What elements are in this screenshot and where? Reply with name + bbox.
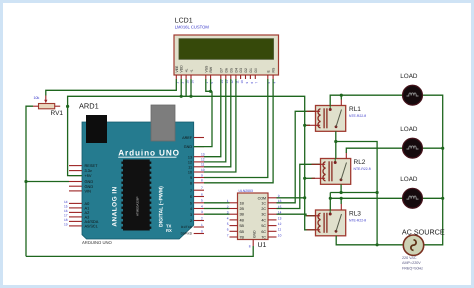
wire RL3 NO stub: [340, 198, 342, 204]
wire +5V to RL2 coil: [305, 177, 315, 179]
svg-text:4: 4: [201, 204, 203, 208]
svg-text:D1: D1: [249, 68, 253, 72]
junction AC chain: [376, 243, 379, 246]
Arduino USB connector: [151, 105, 175, 141]
LCD pin numbers: [176, 80, 277, 84]
svg-text:6C: 6C: [261, 230, 266, 234]
svg-text:14: 14: [64, 200, 68, 204]
wire 1C to RL1 coil: [277, 111, 316, 203]
svg-text:ULN2003: ULN2003: [239, 189, 253, 193]
svg-text:10: 10: [240, 80, 244, 84]
wire pin3 to 3B: [204, 213, 230, 215]
svg-text:RX: RX: [166, 228, 172, 233]
svg-text:7: 7: [227, 233, 229, 237]
svg-text:D5: D5: [229, 68, 233, 72]
wire VSS down: [206, 79, 212, 91]
svg-text:10: 10: [188, 171, 192, 175]
junction GND left: [24, 180, 27, 183]
svg-text:AMP=220V: AMP=220V: [402, 261, 421, 265]
junction VDD: [180, 95, 183, 98]
svg-text:D7: D7: [219, 68, 223, 72]
svg-text:7: 7: [190, 189, 192, 193]
wire LOAD3 right: [422, 197, 442, 199]
svg-text:AREF: AREF: [182, 136, 193, 140]
svg-text:16: 16: [64, 209, 68, 213]
junction chain mid: [376, 191, 379, 194]
svg-text:17: 17: [64, 213, 68, 217]
svg-text:ARD1: ARD1: [79, 102, 99, 111]
svg-text:6: 6: [201, 192, 203, 196]
svg-text:6: 6: [190, 195, 192, 199]
svg-text:2: 2: [201, 216, 203, 220]
svg-text:9: 9: [201, 173, 203, 177]
svg-text:8: 8: [249, 245, 251, 249]
svg-text:FREQ=50Hz: FREQ=50Hz: [402, 266, 423, 270]
svg-text:4C: 4C: [261, 218, 266, 222]
label Arduino UNO on board: [118, 149, 180, 158]
junction RV1/+5V: [66, 105, 69, 108]
svg-text:7: 7: [201, 186, 203, 190]
junction -L: [189, 95, 192, 98]
svg-text:RS: RS: [272, 67, 276, 72]
svg-text:13: 13: [188, 155, 192, 159]
wire +L drop: [185, 79, 187, 96]
wire RL3 common to AC: [336, 236, 403, 245]
wire RL1 NO stub: [340, 95, 342, 99]
svg-text:5: 5: [201, 199, 203, 203]
junction chain RL2 top: [334, 140, 337, 143]
svg-text:D3: D3: [239, 68, 243, 72]
svg-text:12: 12: [188, 161, 192, 165]
wire LOAD1 to RL1 contacts: [330, 95, 403, 105]
svg-text:5B: 5B: [240, 224, 245, 228]
svg-text:8: 8: [190, 181, 192, 185]
wire GND riser to Arduino: [194, 91, 212, 146]
wire +5V to RL1 coil: [305, 124, 310, 126]
junction RL1 coil +5V: [303, 124, 306, 127]
svg-text:ARDUINO UNO: ARDUINO UNO: [82, 240, 113, 245]
wire AC right to neutral: [422, 95, 442, 245]
svg-text:RL2: RL2: [354, 159, 366, 166]
svg-text:COM: COM: [258, 196, 266, 200]
wire 3C to RL3 coil: [277, 214, 316, 216]
load lamp LOAD1: [403, 85, 423, 105]
svg-text:6: 6: [227, 228, 229, 232]
svg-text:10k: 10k: [34, 96, 40, 100]
svg-text:VIN: VIN: [85, 189, 92, 194]
svg-text:8: 8: [201, 179, 203, 183]
LCD pin stubs: [176, 75, 273, 79]
wire LOAD3 line: [330, 197, 402, 199]
svg-text:15: 15: [64, 204, 68, 208]
svg-text:VDD: VDD: [180, 65, 184, 73]
svg-text:12: 12: [201, 158, 205, 162]
wire RL2 common rail: [330, 192, 377, 194]
wire VEE to RV1 wiper: [46, 79, 177, 96]
RV1 left terminal stub: [33, 105, 39, 107]
svg-text:13: 13: [201, 153, 205, 157]
svg-text:NTE-R22-8: NTE-R22-8: [354, 167, 371, 171]
junction VSS-RW: [209, 90, 212, 93]
junction RL3 NO: [340, 197, 343, 200]
svg-text:DIGITAL (~PWM): DIGITAL (~PWM): [159, 186, 165, 227]
svg-text:9: 9: [190, 176, 192, 180]
wire 2C to RL2 coil: [277, 164, 321, 208]
svg-text:NTE-R22-8: NTE-R22-8: [349, 218, 366, 222]
junction RL2 coil +5V: [303, 177, 306, 180]
svg-text:D0/RXD: D0/RXD: [181, 232, 193, 236]
svg-text:U1: U1: [258, 242, 267, 249]
svg-text:6B: 6B: [240, 230, 245, 234]
svg-text:RV1: RV1: [51, 110, 64, 117]
svg-text:19: 19: [64, 222, 68, 226]
svg-text:3C: 3C: [261, 213, 266, 217]
wire GND bottom to U1: [26, 246, 253, 256]
svg-text:D4: D4: [234, 68, 238, 72]
wire LCD D6 to pin 12: [204, 79, 226, 162]
svg-text:GND: GND: [253, 230, 257, 238]
junction neutral LOAD2: [441, 147, 444, 150]
svg-text:RW: RW: [209, 66, 213, 72]
svg-text:7C: 7C: [261, 236, 266, 240]
svg-text:VSS: VSS: [204, 65, 208, 73]
U1 input pins 1B-7B: [227, 199, 245, 239]
svg-text:ATMEGA328P: ATMEGA328P: [135, 197, 139, 216]
AC source symbol: [403, 235, 423, 255]
Arduino left power pins: [69, 163, 98, 193]
wire RL3 pivot branch: [329, 193, 331, 211]
wire GND to Arduino GND pin: [26, 181, 69, 183]
svg-text:3: 3: [190, 213, 192, 217]
svg-text:0: 0: [201, 229, 203, 233]
svg-text:-L: -L: [190, 69, 194, 72]
LCD display LCD1: [174, 35, 279, 75]
svg-text:10: 10: [201, 168, 205, 172]
svg-text:5C: 5C: [261, 224, 266, 228]
junction RL1 NO: [340, 94, 343, 97]
svg-text:11: 11: [278, 228, 282, 232]
svg-text:4B: 4B: [240, 218, 245, 222]
junction COM: [303, 196, 306, 199]
relay RL3: [307, 204, 346, 236]
U1 GND pin 8: [249, 230, 257, 249]
wire LOAD2 to RL2 contact: [346, 148, 402, 153]
svg-text:1: 1: [201, 223, 203, 227]
load lamp LOAD3: [403, 188, 423, 208]
svg-text:2C: 2C: [261, 207, 266, 211]
svg-text:D2: D2: [244, 68, 248, 72]
wire pin4 to 2B: [204, 208, 230, 210]
svg-text:2B: 2B: [240, 207, 245, 211]
wire LCD D7 to pin 13: [204, 79, 221, 157]
U1 output pins COM,1C-7C: [258, 194, 282, 239]
wire LCD E to pin 9: [204, 79, 268, 178]
wire RW down: [210, 79, 212, 91]
wire LCD RS to pin 8: [204, 79, 273, 183]
wire pin5 to 1B: [204, 202, 230, 204]
IC U1 ULN2003 body: [238, 193, 269, 240]
Arduino analog pins A0-A5: [64, 200, 99, 229]
wire +5V rail: [68, 96, 316, 230]
junction LOAD3 line: [329, 197, 332, 200]
potentiometer RV1 body: [39, 104, 55, 109]
svg-text:D6: D6: [224, 68, 228, 72]
svg-text:11: 11: [188, 165, 192, 169]
wire RL2 pivot branch: [335, 142, 337, 159]
svg-text:D1/TXD: D1/TXD: [181, 225, 193, 229]
relay RL1: [307, 100, 346, 132]
wire RV1 left to GND rail: [26, 106, 33, 256]
svg-text:4: 4: [227, 216, 229, 220]
svg-text:AC SOURCE: AC SOURCE: [402, 227, 445, 236]
svg-text:1B: 1B: [240, 201, 245, 205]
svg-text:3: 3: [201, 210, 203, 214]
svg-text:5: 5: [227, 222, 229, 226]
Arduino UNO board ARD1 body: [82, 122, 194, 239]
svg-text:A5/SCL: A5/SCL: [85, 224, 99, 229]
LCD pin name labels: [175, 65, 276, 73]
junction neutral LOAD3: [441, 197, 444, 200]
svg-text:NTE-R22-8: NTE-R22-8: [349, 114, 366, 118]
junction RL2 common: [340, 191, 343, 194]
Arduino right digital pins: [181, 136, 205, 236]
svg-text:Arduino UNO: Arduino UNO: [118, 149, 180, 158]
relay RL2: [312, 153, 351, 185]
svg-text:13: 13: [278, 216, 282, 220]
wire COM to +5V: [277, 197, 305, 199]
wire LOAD2 right: [422, 147, 442, 149]
load lamp LOAD2: [403, 138, 423, 158]
ATmega328 chip: [121, 160, 151, 231]
svg-text:LOAD: LOAD: [400, 126, 418, 133]
svg-text:+L: +L: [185, 69, 189, 73]
svg-text:LOAD: LOAD: [400, 176, 418, 183]
svg-text:11: 11: [201, 163, 205, 167]
wire VDD drop: [180, 79, 182, 96]
svg-text:220 VAC: 220 VAC: [402, 256, 417, 260]
svg-text:RL1: RL1: [349, 106, 361, 113]
svg-text:2: 2: [190, 219, 192, 223]
svg-text:LM016L CUSTOM: LM016L CUSTOM: [175, 24, 210, 29]
svg-text:1C: 1C: [261, 201, 266, 205]
svg-text:10: 10: [278, 233, 282, 237]
svg-text:7B: 7B: [240, 236, 245, 240]
svg-text:12: 12: [278, 222, 282, 226]
RV1 wiper arrow: [44, 96, 47, 104]
wire RL1 common chain: [336, 131, 377, 245]
svg-text:VEE: VEE: [175, 65, 179, 73]
svg-text:+5V: +5V: [85, 173, 92, 178]
Arduino power jack: [86, 115, 107, 143]
svg-text:5: 5: [190, 201, 192, 205]
svg-text:LOAD: LOAD: [400, 73, 418, 80]
svg-text:RL3: RL3: [349, 211, 361, 218]
svg-text:D0: D0: [254, 68, 258, 72]
svg-text:ANALOG IN: ANALOG IN: [112, 186, 119, 226]
svg-text:3B: 3B: [240, 213, 245, 217]
wire LCD D5 to pin 11: [204, 79, 231, 167]
RV1 right terminal stub: [55, 105, 61, 107]
svg-text:18: 18: [64, 218, 68, 222]
svg-text:GND: GND: [184, 145, 193, 149]
wire LCD D4 to pin 10: [204, 79, 236, 172]
svg-text:4: 4: [190, 207, 192, 211]
wire RL2 common: [340, 184, 342, 192]
wire -L drop: [190, 79, 192, 96]
